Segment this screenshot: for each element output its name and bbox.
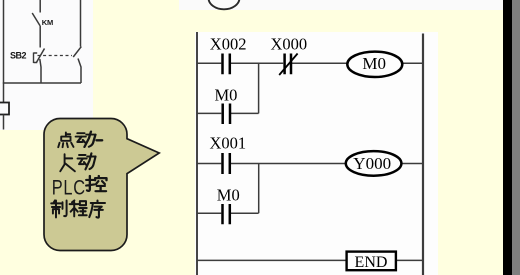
rung1 wire segments — [197, 62, 423, 64]
left schematic white panel — [0, 0, 93, 130]
svg-text:X002: X002 — [210, 34, 247, 53]
partial coil ellipse at top — [209, 0, 240, 9]
contact M0 branch1 — [223, 104, 230, 125]
X000 slash — [279, 54, 297, 76]
ladder right rail — [422, 34, 424, 275]
contact X001 — [223, 153, 230, 174]
branch2 junction vertical — [258, 164, 260, 214]
svg-text:END: END — [355, 254, 388, 271]
contact SB2 moving blade — [36, 49, 44, 63]
component box (cut at edge) — [0, 103, 9, 115]
wire: between KM and SB2 — [39, 26, 41, 48]
grey side strip — [512, 0, 520, 275]
coil Y000 — [346, 151, 402, 176]
svg-text:PLC: PLC — [52, 175, 86, 198]
contact (linked, right) blade — [73, 47, 81, 57]
svg-text:X001: X001 — [210, 134, 247, 153]
branch2 wire — [197, 212, 259, 214]
contact KM (normally open) — [32, 13, 40, 26]
svg-text:M0: M0 — [362, 54, 386, 73]
rung2 wire segments — [197, 163, 423, 165]
svg-text:Y000: Y000 — [353, 154, 391, 173]
glyph dong1 — [76, 132, 96, 148]
wire: below box — [3, 115, 5, 130]
black side bar — [503, 0, 512, 275]
svg-text:KM: KM — [42, 18, 53, 27]
hyphen — [97, 139, 103, 141]
callout bubble — [44, 119, 159, 251]
END box — [347, 252, 396, 271]
svg-text:SB2: SB2 — [10, 51, 27, 61]
wire: schematic left vertical line — [3, 0, 5, 103]
wire: KM/SB2 vertical top segment — [39, 0, 41, 13]
pushbutton SB2 actuator — [34, 53, 38, 64]
glyph dong2 — [78, 153, 96, 169]
wire: SB2 lower segment — [40, 59, 41, 83]
glyph xu — [89, 201, 105, 218]
wire: schematic bottom horizontal — [3, 82, 81, 84]
glyph kong — [86, 176, 106, 191]
dashed linkage line — [38, 55, 73, 57]
top white strip — [179, 0, 503, 10]
glyph chang — [60, 154, 75, 171]
wire: right vertical top segment — [80, 0, 82, 47]
glyph zhi — [51, 201, 66, 218]
ladder left rail — [196, 32, 198, 275]
branch1 junction vertical — [258, 63, 260, 113]
contact X002 — [223, 54, 230, 75]
svg-text:X000: X000 — [271, 34, 308, 53]
contact M0 branch2 — [223, 204, 230, 224]
bottom rung wire — [197, 259, 423, 261]
glyph dian — [58, 132, 73, 147]
ladder white panel — [195, 32, 438, 275]
svg-text:M0: M0 — [215, 85, 238, 104]
glyph cheng — [70, 201, 87, 217]
wire: right vertical lower segment — [78, 59, 81, 84]
branch1 wire — [197, 112, 259, 114]
svg-text:M0: M0 — [217, 186, 240, 205]
contact X000 (normally closed) — [285, 54, 291, 75]
coil M0 — [347, 52, 402, 77]
